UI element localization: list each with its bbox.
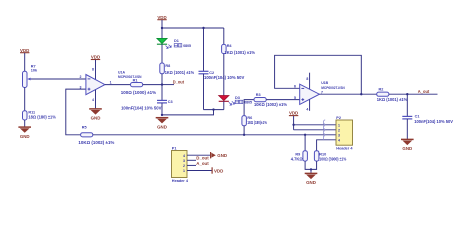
svg-text:4.7KΩ: 4.7KΩ bbox=[291, 156, 304, 161]
resistor R5 bbox=[81, 133, 93, 137]
svg-text:3: 3 bbox=[338, 133, 340, 137]
svg-text:D3: D3 bbox=[235, 96, 240, 100]
ground below R9 R10 bbox=[305, 173, 318, 185]
svg-text:GND: GND bbox=[91, 116, 101, 121]
svg-text:8: 8 bbox=[306, 77, 308, 81]
svg-text:R2: R2 bbox=[379, 87, 384, 91]
wire R8 to node bbox=[161, 74, 163, 85]
wire ground node jog to LED column bbox=[162, 110, 214, 115]
svg-text:VDD: VDD bbox=[214, 168, 223, 173]
wire horizontal at 109.6 bbox=[204, 109, 224, 111]
svg-text:GND: GND bbox=[306, 180, 316, 185]
wire U1B pin8 stub bbox=[309, 73, 311, 89]
wire P1 pin1 to VDD flag bbox=[187, 170, 212, 172]
wire R6 top corner to R3 bbox=[244, 100, 254, 116]
power VDD flag above R7 bbox=[20, 48, 29, 53]
capacitor C1 bbox=[402, 116, 412, 119]
wire U1A output to R1 bbox=[105, 84, 131, 86]
svg-text:R1: R1 bbox=[133, 78, 138, 82]
wire R9 R10 bottoms join bbox=[305, 161, 317, 169]
svg-text:A_out: A_out bbox=[196, 161, 209, 166]
wire P1 pin2 stub bbox=[187, 164, 196, 166]
wire U1A pin3 feedback down-left bbox=[66, 89, 86, 135]
svg-text:P1: P1 bbox=[172, 147, 177, 151]
junction feedback output bbox=[360, 93, 362, 95]
header P2 bbox=[336, 120, 353, 145]
svg-text:VDD: VDD bbox=[289, 111, 298, 116]
svg-text:1: 1 bbox=[183, 169, 185, 173]
wire P2 pin4 corner to R10 bbox=[317, 140, 336, 151]
ground below R11 bbox=[18, 127, 31, 139]
svg-text:VDD: VDD bbox=[91, 55, 100, 60]
svg-text:R5: R5 bbox=[82, 126, 87, 130]
op-amp U1B bbox=[300, 84, 320, 104]
ground below C3 bbox=[156, 118, 169, 130]
svg-text:8: 8 bbox=[92, 67, 94, 71]
svg-text:D1: D1 bbox=[174, 39, 179, 43]
wire R6 bottom to long net bbox=[243, 126, 245, 135]
svg-text:4: 4 bbox=[306, 108, 308, 112]
wire to ground bbox=[310, 169, 312, 173]
svg-text:100nF(104) 10% 50V: 100nF(104) 10% 50V bbox=[121, 105, 161, 110]
wire top rail bbox=[162, 27, 224, 29]
resistor R8 bbox=[160, 63, 165, 74]
wire P2 pin1 bbox=[294, 124, 336, 126]
svg-text:U1A: U1A bbox=[118, 70, 125, 74]
wire U1B feedback loop bbox=[275, 55, 362, 94]
svg-text:1KΩ (1001) ±1%: 1KΩ (1001) ±1% bbox=[377, 97, 408, 102]
svg-text:3: 3 bbox=[183, 159, 185, 163]
net flag VDD at P1 pin1 bbox=[212, 167, 223, 173]
svg-text:5: 5 bbox=[294, 96, 296, 100]
potentiometer R7 bbox=[23, 71, 34, 87]
label D1 type bbox=[174, 44, 191, 48]
junction ground node bbox=[161, 114, 163, 116]
svg-text:100Ω (3900) ±1%: 100Ω (3900) ±1% bbox=[319, 156, 346, 161]
svg-text:6: 6 bbox=[294, 85, 296, 89]
svg-text:4: 4 bbox=[92, 98, 94, 102]
svg-text:1: 1 bbox=[110, 81, 112, 85]
wire R5 to P2 pin3 long net bbox=[93, 134, 336, 136]
wire node to C3 bbox=[161, 85, 163, 100]
junction R6 long net bbox=[243, 134, 245, 136]
wire VDD to R7 top bbox=[24, 53, 26, 71]
svg-text:R3: R3 bbox=[256, 93, 261, 97]
resistor R4 bbox=[222, 44, 227, 53]
wire U1B output to R2 bbox=[319, 93, 376, 95]
svg-text:0805: 0805 bbox=[183, 44, 191, 48]
svg-text:P2: P2 bbox=[336, 116, 341, 120]
ground below U1A bbox=[89, 109, 102, 121]
LED D1 green bbox=[157, 38, 171, 48]
wire C2 down to jog bbox=[203, 74, 205, 110]
wire D3 cathode down bbox=[223, 101, 225, 109]
junction C1 tap bbox=[406, 93, 408, 95]
svg-text:18Ω (180)±1%: 18Ω (180)±1% bbox=[247, 120, 267, 125]
junction VDD rail bbox=[161, 27, 163, 29]
junction VDD pin1 bbox=[292, 124, 294, 126]
wire C1 to ground bbox=[406, 119, 408, 139]
svg-text:C3: C3 bbox=[168, 100, 173, 104]
junction gnd tap bbox=[310, 168, 312, 170]
svg-text:4: 4 bbox=[183, 154, 185, 158]
wire VDD down to pin wires bbox=[293, 116, 295, 130]
resistor R2 bbox=[377, 92, 389, 96]
wire rail corner down to R4 bbox=[223, 28, 225, 44]
wire P1 pin3 stub bbox=[187, 159, 196, 161]
svg-text:0805: 0805 bbox=[244, 101, 252, 105]
wire R7 bottom to R11 bbox=[24, 88, 26, 111]
wire R9 column bbox=[304, 135, 306, 151]
wire R3 to U1B pin5 bbox=[266, 99, 300, 101]
svg-text:4: 4 bbox=[338, 138, 340, 142]
wire U1A pin8 stub bbox=[95, 60, 97, 80]
wire R1 to node bbox=[143, 84, 162, 86]
svg-text:D_out: D_out bbox=[173, 79, 185, 84]
ground below C1 bbox=[401, 139, 414, 151]
net flag GND at P1 pin4 bbox=[211, 152, 227, 158]
svg-text:18Ω (180) ±1%: 18Ω (180) ±1% bbox=[28, 115, 56, 120]
wire hop line at P2 bbox=[324, 120, 326, 140]
svg-text:10KΩ (1002) ±1%: 10KΩ (1002) ±1% bbox=[254, 102, 287, 107]
label D3 type bbox=[235, 100, 252, 104]
svg-text:2: 2 bbox=[338, 128, 340, 132]
svg-text:MCP6002T-I/SN: MCP6002T-I/SN bbox=[118, 75, 142, 79]
svg-text:GND: GND bbox=[217, 153, 227, 158]
svg-text:U1B: U1B bbox=[321, 81, 328, 85]
resistor R11 bbox=[23, 111, 28, 120]
svg-text:Header 4: Header 4 bbox=[336, 147, 353, 151]
svg-text:100nF(104) 10% 50V: 100nF(104) 10% 50V bbox=[414, 119, 453, 124]
wire C3 to ground node bbox=[161, 103, 163, 115]
wire rail to D1 anode bbox=[161, 28, 163, 38]
power VDD flag above D1 bbox=[157, 15, 166, 20]
svg-text:VDD: VDD bbox=[157, 15, 166, 20]
svg-text:10k: 10k bbox=[31, 69, 38, 73]
op-amp U1A bbox=[86, 75, 105, 95]
svg-text:1: 1 bbox=[338, 123, 340, 127]
wire U1A pin4 to ground bbox=[95, 90, 97, 109]
svg-text:GND: GND bbox=[20, 134, 30, 139]
svg-text:GND: GND bbox=[157, 124, 167, 129]
wire rail to C2 bbox=[203, 28, 205, 71]
wire R7 wiper to U1A pin2 bbox=[31, 78, 86, 80]
svg-text:R8: R8 bbox=[165, 64, 170, 68]
junction jog bbox=[212, 108, 214, 110]
wire R11 to ground bbox=[24, 120, 26, 127]
wire D_out stub bbox=[162, 84, 174, 86]
header P1 bbox=[172, 151, 188, 178]
wire node to C1 bbox=[406, 94, 408, 116]
resistor R10 bbox=[314, 151, 319, 161]
wire D1 cathode to R8 bbox=[161, 44, 163, 63]
wire R4 to D3 anode bbox=[223, 54, 225, 96]
wire U1B pin4 stub bbox=[309, 99, 311, 110]
svg-text:Header 4: Header 4 bbox=[172, 179, 189, 183]
svg-text:1KΩ (1001) ±1%: 1KΩ (1001) ±1% bbox=[225, 50, 256, 55]
svg-text:A_out: A_out bbox=[418, 89, 430, 94]
power VDD flag above U1A bbox=[91, 55, 100, 60]
wire VDD to rail bbox=[161, 20, 163, 28]
resistor R6 bbox=[242, 116, 247, 126]
resistor R3 bbox=[254, 98, 266, 102]
svg-text:2: 2 bbox=[80, 75, 82, 79]
svg-text:1KΩ (1001) ±1%: 1KΩ (1001) ±1% bbox=[165, 70, 195, 75]
svg-text:10KΩ (1002) ±1%: 10KΩ (1002) ±1% bbox=[78, 140, 114, 145]
power VDD flag above P2 pins bbox=[289, 111, 298, 116]
LED D3 red bbox=[219, 96, 235, 106]
svg-text:100Ω (1000) ±1%: 100Ω (1000) ±1% bbox=[121, 90, 157, 95]
junction rail C2 bbox=[202, 27, 204, 29]
svg-text:GND: GND bbox=[402, 146, 412, 151]
resistor R9 bbox=[303, 151, 308, 161]
svg-text:MCP6002T-I/SN: MCP6002T-I/SN bbox=[321, 86, 345, 90]
junction R9 tap bbox=[304, 134, 306, 136]
wire R2 to A_out bbox=[389, 93, 438, 95]
svg-text:3: 3 bbox=[80, 85, 82, 89]
svg-text:2: 2 bbox=[183, 164, 185, 168]
capacitor C3 bbox=[157, 100, 167, 103]
wire P2 pin2 bbox=[294, 129, 336, 131]
node D_out junction bbox=[161, 83, 163, 85]
capacitor C2 bbox=[199, 71, 209, 74]
resistor R1 bbox=[131, 83, 143, 87]
svg-text:VDD: VDD bbox=[20, 48, 29, 53]
wire P1 pin4 to GND flag bbox=[187, 154, 210, 156]
